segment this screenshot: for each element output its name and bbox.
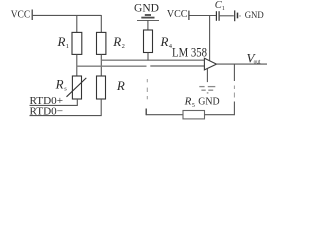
svg-text:R: R — [57, 34, 66, 49]
svg-text:GND: GND — [245, 11, 264, 21]
wire: R bottom to RTD0- line — [100, 99, 102, 115]
wire: R5 left to inverting node (faded dashes) — [146, 79, 148, 82]
svg-text:R: R — [55, 77, 64, 92]
svg-text:LM 358: LM 358 — [172, 45, 207, 60]
resistor R1 — [72, 32, 82, 54]
speck near GND terminal — [240, 15, 241, 17]
svg-text:GND: GND — [198, 96, 219, 107]
resistor R2 — [97, 32, 106, 54]
VCC terminal bar (top left) — [31, 10, 33, 21]
svg-text:VCC: VCC — [167, 8, 188, 20]
op-amp U1 (LM 358) — [204, 58, 216, 70]
wire: drop to R2 top — [100, 15, 102, 32]
capacitor plate (short thick) at GND — [237, 13, 239, 19]
wire: Rs bottom to RTD0+ line — [76, 99, 78, 105]
ground symbol (faded, below op-amp) — [199, 87, 215, 93]
wire: op-amp V- down to ground — [206, 69, 208, 83]
resistor R5 — [183, 111, 205, 119]
svg-text:2: 2 — [122, 43, 125, 50]
wire: ground to R4 top — [147, 20, 149, 30]
wire: inverting input (lower) — [77, 65, 147, 67]
capacitor plate (tall) at GND — [234, 10, 236, 21]
svg-text:1: 1 — [222, 6, 225, 12]
wire: VCC rail to R2 drop — [33, 14, 102, 16]
VCC terminal bar (top right) — [188, 11, 190, 20]
resistor R — [97, 76, 106, 99]
wire: inverting input (lower, right part) — [150, 65, 204, 67]
svg-text:R: R — [112, 34, 121, 49]
resistor Rs (RTD element) — [72, 76, 81, 99]
wire: R5 right to tap — [205, 114, 235, 116]
resistor R4 — [144, 30, 153, 53]
svg-text:R: R — [116, 78, 125, 93]
ground symbol (top) — [137, 15, 159, 20]
wire: R1 bottom down to Rs top — [76, 54, 78, 76]
wire: C1 to GND terminal — [220, 15, 234, 17]
wire: R4 bottom to upper input wire — [147, 53, 149, 61]
wire: bottom feedback run to R5 — [146, 114, 183, 116]
wire: feedback tap from output (partly faded) — [233, 64, 235, 81]
svg-text:VCC: VCC — [11, 9, 31, 21]
wire: op-amp V+ drop — [209, 16, 211, 62]
wire: drop to R1 top — [76, 15, 78, 32]
svg-text:R: R — [184, 96, 192, 108]
wire: VCC2 rail to C1 — [189, 15, 216, 17]
wire: RTD0+ lead — [30, 104, 78, 106]
svg-text:GND: GND — [134, 0, 159, 14]
capacitor C1 — [215, 11, 217, 21]
Rs slash (variable element arrow) — [67, 78, 87, 97]
wire: op-amp output — [217, 63, 268, 65]
wire: non-inverting input (upper) — [101, 59, 204, 61]
svg-text:out: out — [254, 58, 261, 65]
svg-text:5: 5 — [192, 103, 195, 109]
svg-text:R: R — [160, 34, 169, 49]
wire: R2 bottom down to R top — [100, 54, 102, 76]
svg-text:1: 1 — [66, 43, 69, 50]
wire: RTD0- lead — [30, 115, 102, 117]
